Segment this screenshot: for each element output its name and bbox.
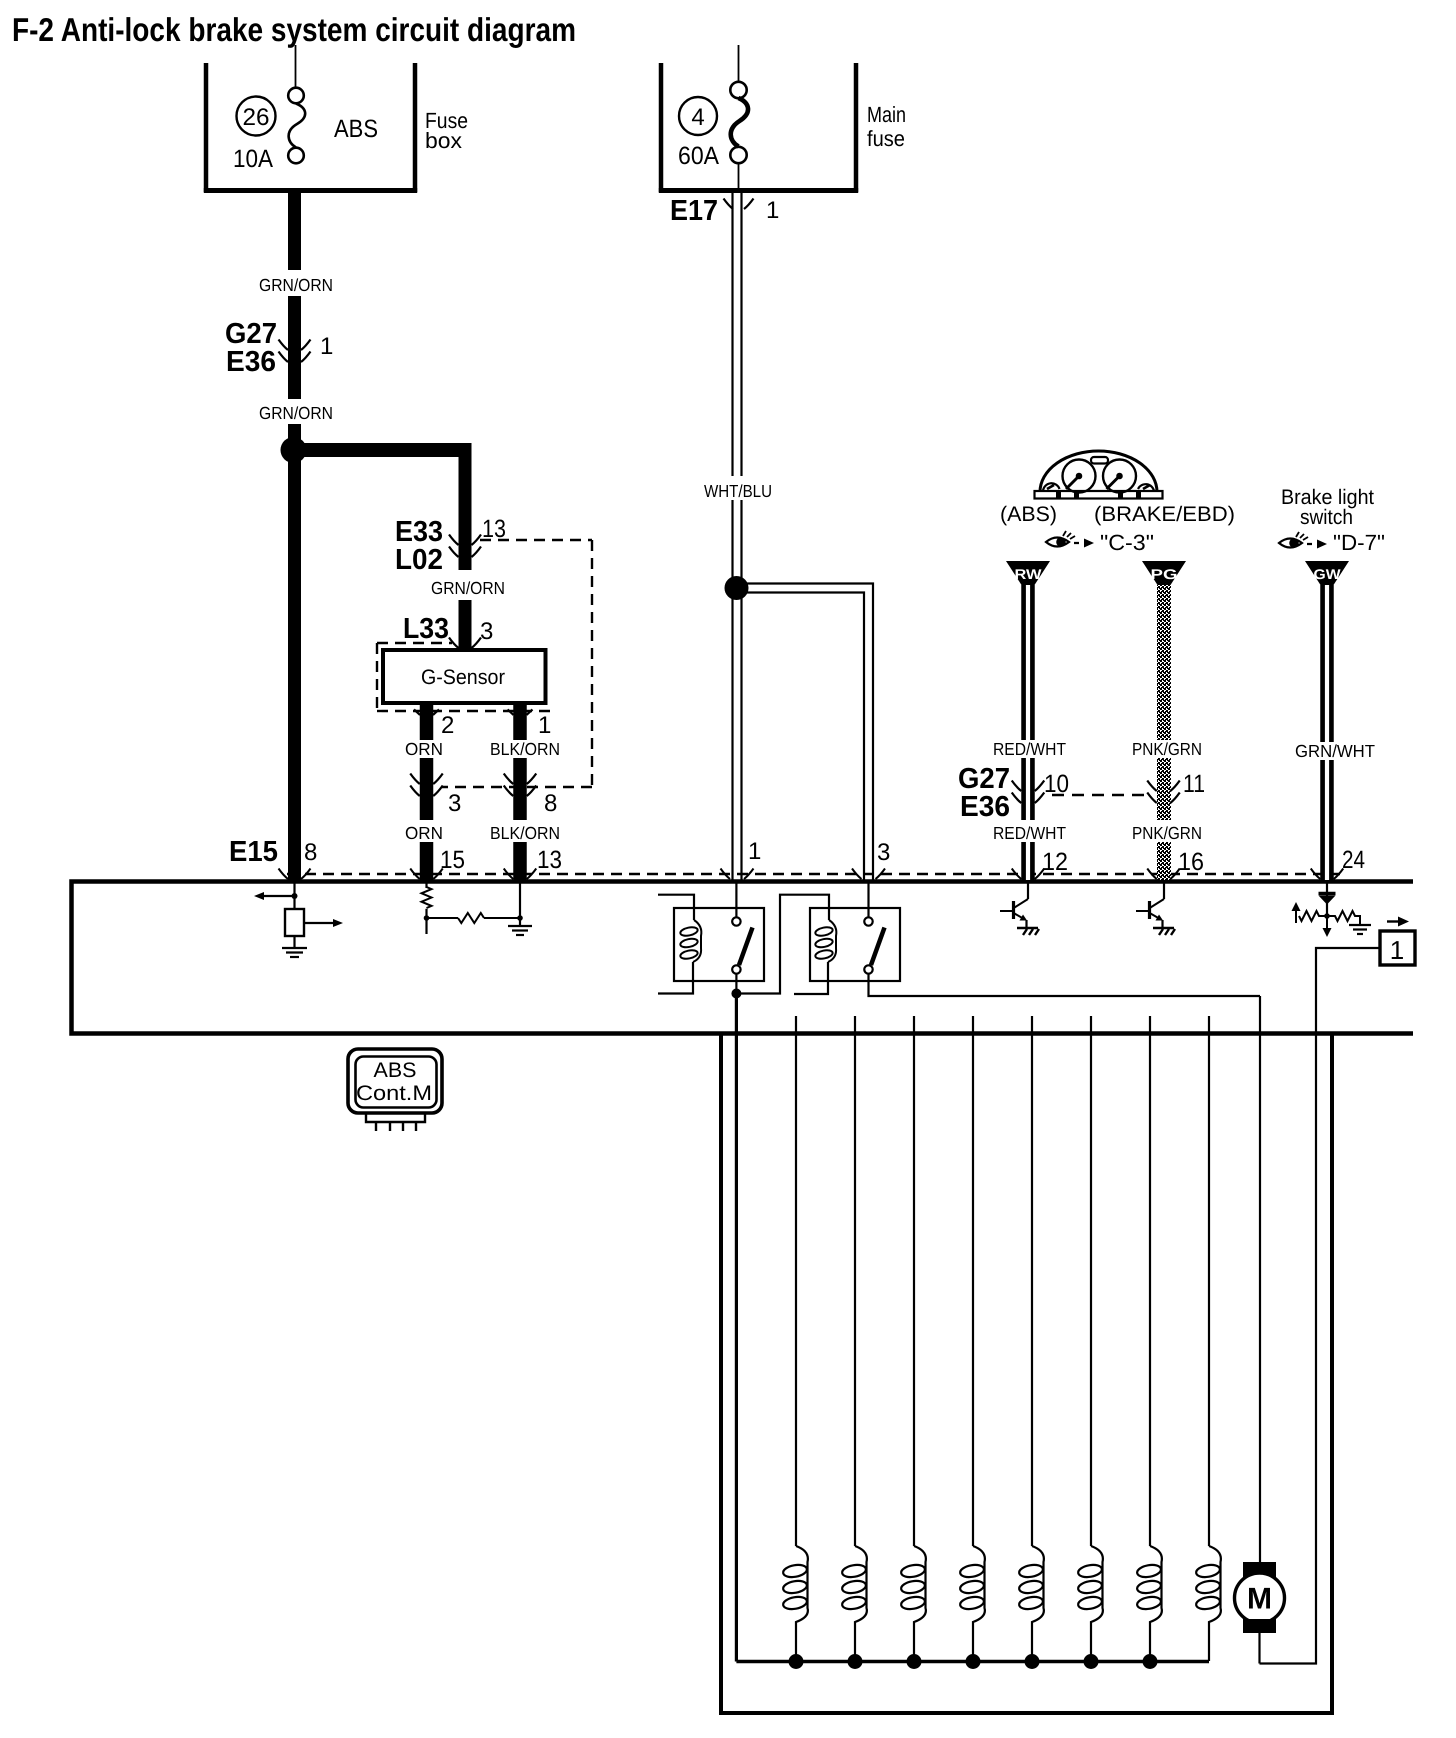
svg-text:1: 1 xyxy=(1390,935,1404,965)
relay K2 coil lead bottom xyxy=(794,962,828,994)
wire stub above fuse 26 xyxy=(295,45,297,88)
svg-text:RW: RW xyxy=(1015,566,1043,582)
svg-text:E36: E36 xyxy=(960,791,1010,823)
chevrons module pins 8,15,13 xyxy=(279,869,537,880)
wire R16 to pin13 node xyxy=(484,917,520,919)
wire pin3 to relay K2 switch xyxy=(867,881,869,918)
svg-text:3: 3 xyxy=(448,790,461,817)
svg-text:ORN: ORN xyxy=(405,739,443,759)
svg-text:12: 12 xyxy=(1042,848,1068,876)
svg-text:RED/WHT: RED/WHT xyxy=(993,739,1066,759)
svg-text:GRN/WHT: GRN/WHT xyxy=(1295,741,1375,761)
svg-text:"D-7": "D-7" xyxy=(1333,530,1385,555)
svg-text:E17: E17 xyxy=(670,195,718,227)
wire R15 to node xyxy=(425,909,427,934)
svg-text:8: 8 xyxy=(544,790,557,817)
connector L33 chevron xyxy=(449,638,481,649)
ground (pin8 circuit) xyxy=(282,948,307,957)
wire G-Sensor pin1 xyxy=(513,703,527,880)
svg-text:PNK/GRN: PNK/GRN xyxy=(1132,739,1202,759)
relay K1 coil lead top xyxy=(658,895,694,920)
connector E17 chevrons xyxy=(724,199,754,210)
wire WHT/BLU (double line) from main fuse down xyxy=(733,191,742,880)
fuse number 4 (circled) xyxy=(679,97,717,135)
G-Sensor pin1 chevron (downward) xyxy=(508,710,533,716)
resistor RV2 right (zigzag to ground) xyxy=(1327,911,1360,925)
svg-text:PG: PG xyxy=(1151,566,1178,582)
svg-text:GRN/ORN: GRN/ORN xyxy=(259,275,333,295)
svg-text:24: 24 xyxy=(1342,846,1365,874)
connector chevron pin1 module xyxy=(721,869,754,880)
arrow left from pin8 node xyxy=(262,895,295,897)
node pin15 junction xyxy=(424,915,430,921)
wire GRN/WHT (striped) xyxy=(1320,585,1334,880)
svg-text:BLK/ORN: BLK/ORN xyxy=(490,823,560,843)
svg-text:RED/WHT: RED/WHT xyxy=(993,823,1066,843)
connector head PG xyxy=(1142,561,1186,585)
svg-text:1: 1 xyxy=(748,838,761,865)
svg-text:box: box xyxy=(425,128,462,153)
fuse F26 symbol xyxy=(288,88,305,164)
svg-text:Cont.M: Cont.M xyxy=(356,1082,432,1105)
arrow right from resistor xyxy=(304,922,334,924)
relay K1 switch xyxy=(732,917,752,973)
relay K1 box xyxy=(674,908,764,981)
connector chevron pin3 module xyxy=(852,869,885,880)
wire GRN/ORN thick from fuse box xyxy=(288,191,301,880)
svg-text:3: 3 xyxy=(480,618,493,645)
main fuse box outline xyxy=(659,63,858,192)
svg-text:3: 3 xyxy=(877,839,890,866)
dashed box around G-Sensor xyxy=(377,643,557,711)
G-Sensor pin2 chevron (downward) xyxy=(414,710,439,716)
ground (pin13 circuit) xyxy=(508,926,532,935)
svg-text:switch: switch xyxy=(1300,506,1353,529)
ground (RV2) xyxy=(1349,925,1371,934)
svg-text:L33: L33 xyxy=(403,613,449,645)
svg-text:Main: Main xyxy=(867,102,906,127)
solenoid bus wire xyxy=(736,1660,1209,1664)
wire RED/WHT (striped) xyxy=(1021,585,1035,880)
svg-text:GRN/ORN: GRN/ORN xyxy=(431,578,505,598)
chevrons G27/E36 pin11 xyxy=(1147,781,1180,804)
hydraulic unit box xyxy=(719,1035,1334,1713)
eye icon C-3 xyxy=(1046,531,1075,547)
fuse F4 symbol (60A) xyxy=(730,82,748,163)
wire stub above fuse 4 xyxy=(738,45,740,82)
long dashed harness line above module xyxy=(287,873,1340,875)
svg-text:16: 16 xyxy=(1178,848,1204,876)
dashed arrow to C-3 xyxy=(1074,542,1086,544)
resistor R15 (vertical zigzag) xyxy=(422,887,432,908)
arrow down below node xyxy=(1326,916,1328,929)
resistor RV1 left (zigzag with up arrow) xyxy=(1299,911,1327,921)
wire G-Sensor pin2 xyxy=(420,703,434,880)
connector E33/L02 chevrons xyxy=(449,535,481,558)
svg-text:F-2 Anti-lock brake system cir: F-2 Anti-lock brake system circuit diagr… xyxy=(12,11,576,48)
interpage link box 1 xyxy=(1380,931,1415,965)
svg-text:1: 1 xyxy=(766,197,779,224)
relay K2 box xyxy=(810,908,900,981)
svg-text:26: 26 xyxy=(243,104,270,131)
svg-text:10A: 10A xyxy=(233,145,273,173)
svg-text:GRN/ORN: GRN/ORN xyxy=(259,403,333,423)
svg-text:fuse: fuse xyxy=(867,126,905,151)
svg-text:1: 1 xyxy=(320,333,333,360)
chevrons module pins 12,16,24 xyxy=(1012,869,1344,880)
node D1 cathode junction xyxy=(1324,913,1330,919)
svg-text:8: 8 xyxy=(304,839,317,866)
svg-text:PNK/GRN: PNK/GRN xyxy=(1132,823,1202,843)
eye icon D-7 xyxy=(1279,532,1308,548)
svg-text:(ABS): (ABS) xyxy=(1000,503,1057,526)
connector G27/E36 chevrons on wire xyxy=(279,340,311,363)
svg-text:ABS: ABS xyxy=(334,115,378,143)
solenoid coil wires (8) xyxy=(796,1016,1209,1546)
wire relay K2 switch to motor feed xyxy=(869,974,1261,997)
svg-text:2: 2 xyxy=(441,712,454,739)
transistor Q2 (pin16) xyxy=(1163,881,1165,899)
solenoid coils L1-L8 xyxy=(782,1546,1221,1661)
svg-text:ORN: ORN xyxy=(405,823,443,843)
wire motor feed down xyxy=(1259,996,1261,1562)
ABS control module box xyxy=(72,882,1414,1034)
svg-text:60A: 60A xyxy=(678,142,719,170)
dashed connector line pin10-pin11 xyxy=(1052,794,1152,797)
ground (Q1 emitter) xyxy=(1017,928,1039,935)
ground (Q2 emitter) xyxy=(1153,928,1175,935)
fuse number 26 (circled) xyxy=(237,97,276,136)
svg-text:E36: E36 xyxy=(226,346,276,378)
wire pin13 internal xyxy=(519,881,521,926)
wire pin1 to relay K1 switch xyxy=(735,881,737,918)
dashed harness line from E33 to L02 box xyxy=(442,540,592,787)
connector head GW xyxy=(1305,561,1349,585)
svg-text:L02: L02 xyxy=(395,544,443,576)
resistor (box) R-E15 xyxy=(285,909,304,936)
relay K2 coil xyxy=(815,920,837,962)
wire branch to pin 3 (double line) xyxy=(742,584,873,881)
G-Sensor box xyxy=(383,650,546,703)
relay K2 switch xyxy=(864,917,884,973)
svg-text:11: 11 xyxy=(1183,770,1205,798)
relay K1 coil lead bottom xyxy=(658,962,693,994)
instrument cluster icon xyxy=(1035,451,1163,499)
node junction on WHT/BLU wire xyxy=(725,576,749,600)
svg-text:BLK/ORN: BLK/ORN xyxy=(490,739,560,759)
svg-text:E15: E15 xyxy=(229,836,278,868)
relay K1 coil xyxy=(680,920,702,962)
wire relay K1 output to solenoid bus xyxy=(735,994,738,1662)
svg-text:13: 13 xyxy=(537,846,562,874)
ABS Cont.M icon xyxy=(348,1049,442,1113)
svg-text:M: M xyxy=(1247,1583,1272,1616)
wire resistor to ground xyxy=(293,936,295,948)
wire relay K1 node to relay K2 coil xyxy=(736,895,829,994)
chevrons G27/E36 pin10 xyxy=(1012,781,1045,804)
wire pin15 internal xyxy=(425,881,427,888)
svg-text:WHT/BLU: WHT/BLU xyxy=(704,481,772,501)
wire PNK/GRN (dithered) xyxy=(1157,585,1171,880)
svg-text:G-Sensor: G-Sensor xyxy=(421,666,505,689)
wire branch to E33 (thick) xyxy=(294,443,465,457)
bus junction dots xyxy=(789,1654,1158,1669)
wire link box to motor return xyxy=(1260,948,1381,1664)
dashed arrow to D-7 xyxy=(1307,543,1319,545)
arrow above link box xyxy=(1387,920,1400,922)
svg-text:4: 4 xyxy=(691,104,704,131)
svg-text:15: 15 xyxy=(440,846,465,874)
node pin8 internal junction xyxy=(292,893,298,899)
svg-text:(BRAKE/EBD): (BRAKE/EBD) xyxy=(1094,503,1235,526)
node junction GRN/ORN branch xyxy=(281,437,307,463)
svg-text:1: 1 xyxy=(538,712,551,739)
diode D1 (pin24) xyxy=(1326,881,1328,916)
connector chevrons pin3/8 row xyxy=(410,774,536,797)
svg-text:ABS: ABS xyxy=(374,1059,417,1082)
svg-text:"C-3": "C-3" xyxy=(1100,530,1154,555)
motor M xyxy=(1235,1562,1285,1664)
wire node to R16 horizontal xyxy=(427,917,459,919)
svg-text:GW: GW xyxy=(1314,566,1342,582)
connector head RW xyxy=(1006,561,1050,585)
wire relay K1 switch to node xyxy=(735,974,737,995)
wire pin8 internal xyxy=(293,881,295,909)
wire fuse4 to box bottom xyxy=(738,163,740,190)
fuse box (ABS fuse box outline) xyxy=(204,63,417,192)
node pin13 junction xyxy=(517,915,523,921)
node relay K1 output xyxy=(731,989,741,999)
resistor R16 (horizontal zigzag) xyxy=(458,913,484,923)
transistor Q1 (pin12) xyxy=(1027,881,1029,899)
